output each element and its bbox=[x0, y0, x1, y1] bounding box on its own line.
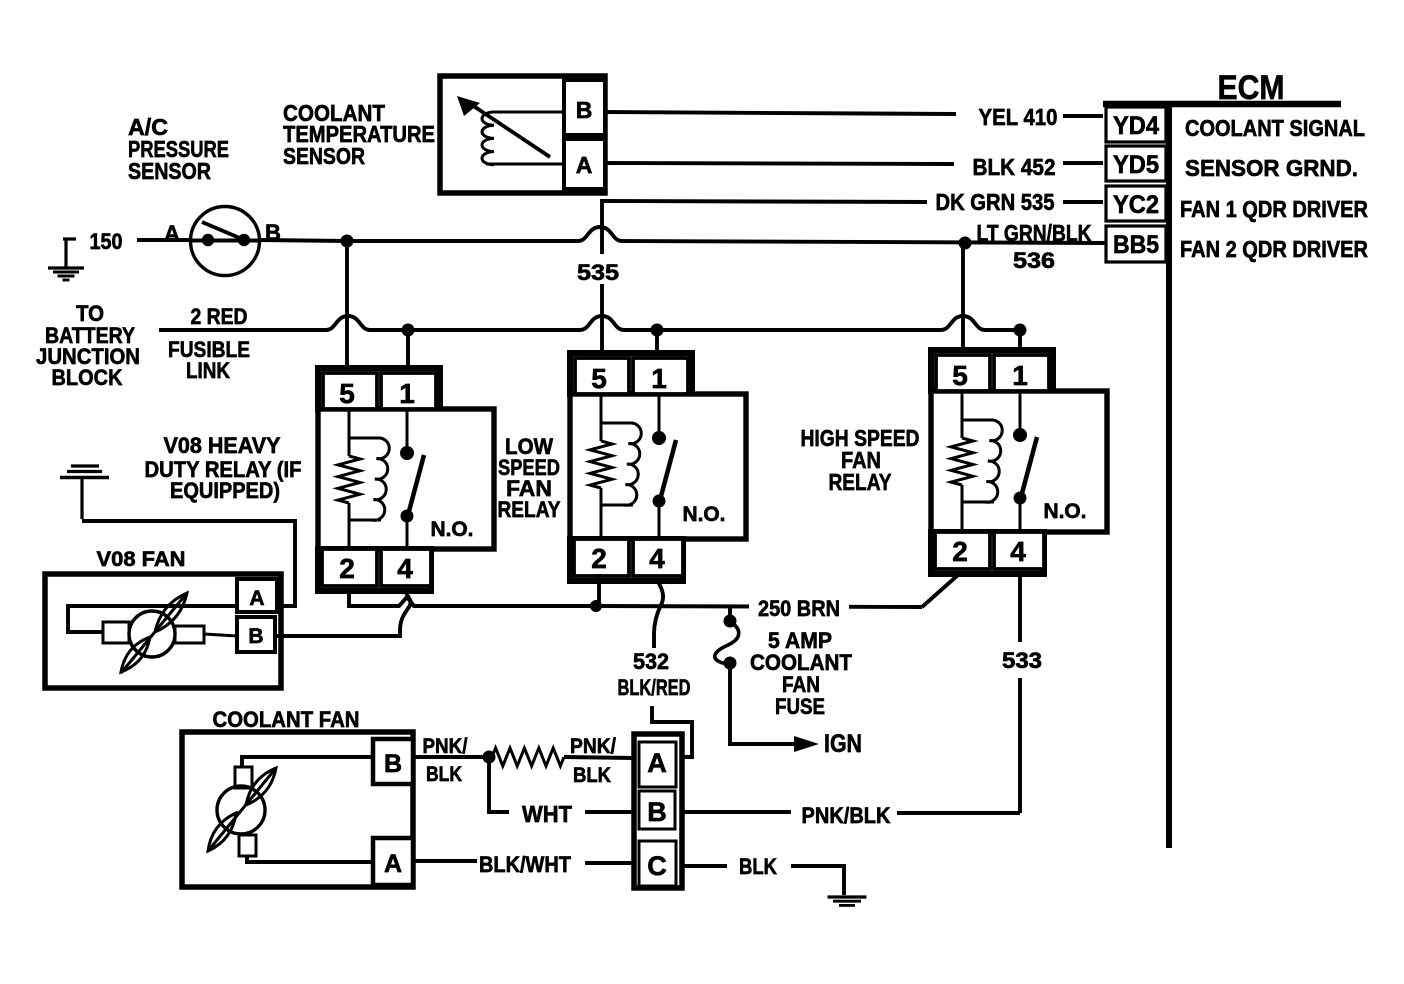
svg-text:PNK/: PNK/ bbox=[423, 735, 468, 758]
junction: V08 relay pin1 tap on 2 RED bbox=[402, 324, 415, 337]
svg-text:COOLANT FAN: COOLANT FAN bbox=[213, 707, 360, 732]
coolant temperature sensor pin box B bbox=[564, 80, 605, 135]
connector C100 outer shell bbox=[634, 734, 682, 888]
label: A/C PRESSURE SENSOR bbox=[128, 114, 229, 184]
junction: high speed relay pin5 tap on wire 536 bbox=[959, 237, 972, 250]
wire: 250 BRN tap to fuse bbox=[728, 607, 732, 618]
svg-text:A: A bbox=[576, 152, 593, 178]
svg-text:BLK: BLK bbox=[573, 764, 611, 787]
wire PNK/BLK stub at connector B bbox=[684, 810, 791, 814]
relay K1 (V08 heavy duty): outline and pin boxes bbox=[318, 368, 494, 591]
resistor R1 (fan dropping resistor) bbox=[492, 748, 564, 766]
ECM pin box YD5 bbox=[1106, 146, 1166, 181]
relay K2 (low speed fan) N.O. switch contacts bbox=[652, 394, 676, 539]
ECM top boundary line bbox=[1103, 101, 1341, 108]
connector C100 terminal B bbox=[639, 791, 675, 829]
svg-text:A: A bbox=[647, 748, 667, 778]
wire: ground to V08 fan terminal A bbox=[82, 521, 295, 606]
relay K3 (high speed fan): outline and pin boxes bbox=[931, 350, 1107, 574]
relay K1 (V08 heavy duty) coil winding bbox=[338, 409, 389, 549]
svg-text:RELAY: RELAY bbox=[829, 469, 892, 495]
junction: high speed relay pin1 tap on 2 RED bbox=[1014, 324, 1027, 337]
connector C100 terminal C bbox=[639, 841, 676, 886]
svg-text:A: A bbox=[384, 850, 402, 878]
wire 533 from high speed relay pin 4 bbox=[1018, 574, 1022, 813]
label: V08 HEAVY DUTY RELAY (IF EQUIPPED) bbox=[145, 433, 302, 503]
wire: splice down to WHT lead bbox=[489, 760, 509, 812]
relay K3 (high speed fan) coil winding bbox=[951, 391, 1002, 532]
svg-text:150: 150 bbox=[90, 229, 123, 254]
junction: 250 BRN at low speed relay pin 2 bbox=[590, 600, 602, 612]
label: 532 BLK/RED bbox=[618, 649, 691, 700]
svg-text:1: 1 bbox=[399, 378, 415, 409]
svg-text:SENSOR GRND.: SENSOR GRND. bbox=[1185, 155, 1358, 181]
svg-text:N.O.: N.O. bbox=[1044, 500, 1087, 523]
wire 250 BRN diagonal to high speed relay pin 2 bbox=[922, 575, 958, 607]
svg-text:V08 FAN: V08 FAN bbox=[97, 548, 186, 571]
coolant temperature sensor outline bbox=[440, 76, 605, 193]
IGN feed arrowhead bbox=[794, 736, 819, 752]
ground symbol G3 (coolant fan ground) bbox=[828, 895, 867, 898]
ECM left boundary line bbox=[1166, 104, 1172, 848]
svg-text:5: 5 bbox=[952, 360, 968, 391]
svg-text:SENSOR: SENSOR bbox=[128, 158, 211, 184]
svg-text:533: 533 bbox=[1002, 648, 1042, 673]
V08 fan enclosure bbox=[45, 574, 281, 688]
wire: 2 RED down to V08 relay pin 1 bbox=[406, 330, 410, 375]
svg-text:DK GRN 535: DK GRN 535 bbox=[936, 189, 1055, 215]
svg-text:250 BRN: 250 BRN bbox=[758, 596, 840, 621]
wire YEL 410 stub at YD4 bbox=[1063, 114, 1103, 118]
svg-text:2: 2 bbox=[952, 536, 968, 567]
wire BLK 452 (sensor A to YD5) bbox=[605, 163, 954, 164]
wire LT GRN/BLK 536 horizontal run with hop over wire 535 bbox=[258, 227, 1106, 243]
wire 150 segment to A/C pressure sensor bbox=[137, 238, 192, 242]
A/C pressure sensor switch S1 bbox=[191, 207, 260, 276]
wire: fuse to IGN bbox=[730, 667, 795, 744]
svg-text:4: 4 bbox=[649, 543, 665, 574]
svg-text:YD5: YD5 bbox=[1113, 151, 1159, 179]
svg-text:YC2: YC2 bbox=[1113, 191, 1159, 219]
relay K2 (low speed fan): outline and pin boxes bbox=[570, 353, 746, 581]
svg-text:BLK/WHT: BLK/WHT bbox=[479, 852, 572, 877]
wire: 2 RED down to low speed relay pin 1 bbox=[655, 330, 659, 360]
svg-text:PNK/BLK: PNK/BLK bbox=[802, 803, 891, 828]
svg-text:BLK: BLK bbox=[739, 854, 777, 879]
coolant fan blades bbox=[208, 768, 276, 851]
wire YEL 410 (sensor B to YD4) bbox=[605, 112, 956, 114]
wire: 536 tap down to V08 relay pin 5 bbox=[345, 241, 349, 375]
wire DK GRN 535 horizontal run bbox=[602, 201, 927, 202]
svg-text:YD4: YD4 bbox=[1113, 112, 1159, 140]
thermistor adjustment arrow bbox=[457, 96, 550, 157]
ECM pin box YC2 bbox=[1106, 186, 1166, 221]
label: 250 BRN bbox=[749, 596, 849, 618]
svg-text:B: B bbox=[576, 97, 593, 123]
relay K3 (high speed fan) N.O. switch contacts bbox=[1013, 391, 1037, 532]
fuse F1 (5 amp coolant fan fuse) bbox=[715, 615, 739, 670]
svg-text:B: B bbox=[248, 625, 263, 648]
svg-text:A: A bbox=[249, 587, 264, 610]
ECM pin box YD4 bbox=[1106, 107, 1166, 142]
svg-text:536: 536 bbox=[1013, 248, 1055, 273]
wire: 533 to PNK/BLK run to connector terminal B bbox=[897, 811, 1020, 815]
wire BLK/WHT stub at connector C bbox=[585, 861, 634, 865]
svg-text:LINK: LINK bbox=[186, 358, 230, 383]
label: 5 AMP COOLANT FAN FUSE bbox=[750, 628, 853, 719]
junction: V08 relay pin5 tap on wire 536 bbox=[341, 235, 354, 248]
label: PNK/ BLK (left) bbox=[423, 735, 468, 786]
svg-text:FUSE: FUSE bbox=[775, 694, 825, 719]
ground symbol G2 (V08 fan ground) bbox=[60, 466, 109, 519]
svg-text:YEL 410: YEL 410 bbox=[979, 104, 1058, 130]
wire 532 from low speed relay pin 4 (crosses 250 BRN) bbox=[654, 580, 663, 648]
wire 250 BRN run bbox=[596, 606, 922, 607]
V08 fan terminal box B bbox=[237, 617, 275, 652]
svg-text:IGN: IGN bbox=[824, 730, 862, 758]
ground symbol G1 (wire 150 ground) bbox=[48, 239, 84, 280]
svg-text:BLK 452: BLK 452 bbox=[973, 154, 1056, 180]
coolant fan terminal box A bbox=[373, 838, 413, 885]
svg-text:V08 HEAVY: V08 HEAVY bbox=[164, 433, 281, 458]
svg-text:RELAY: RELAY bbox=[498, 497, 561, 522]
label: COOLANT TEMPERATURE SENSOR bbox=[283, 100, 435, 169]
V08 fan blades bbox=[121, 593, 187, 673]
svg-text:BLOCK: BLOCK bbox=[52, 365, 123, 390]
V08 fan motor bbox=[68, 606, 237, 657]
label: FUSIBLE LINK bbox=[168, 337, 250, 383]
svg-text:WHT: WHT bbox=[522, 801, 572, 827]
wire: coolant fan B to splice bbox=[413, 755, 484, 759]
svg-text:5: 5 bbox=[339, 378, 355, 409]
wire: V08 relay pin 2 to 250 BRN net (hop over pin4 lead) bbox=[349, 591, 591, 606]
wire DK GRN 535 vertical run to low speed relay pin 5 bbox=[600, 199, 604, 360]
wire BLK to ground bbox=[791, 866, 844, 895]
wire: 536 tap down to high speed relay pin 5 bbox=[961, 243, 965, 357]
svg-text:BLK: BLK bbox=[426, 763, 462, 786]
wire: 2 RED down to high speed relay pin 1 bbox=[1018, 330, 1022, 357]
svg-text:5: 5 bbox=[591, 363, 607, 394]
svg-text:FAN 2 QDR DRIVER: FAN 2 QDR DRIVER bbox=[1180, 236, 1368, 262]
label: TO BATTERY JUNCTION BLOCK bbox=[36, 301, 140, 390]
svg-text:2 RED: 2 RED bbox=[191, 304, 248, 329]
junction splice on PNK/BLK bbox=[483, 751, 496, 764]
svg-text:FAN 1 QDR DRIVER: FAN 1 QDR DRIVER bbox=[1180, 196, 1368, 222]
svg-text:4: 4 bbox=[397, 553, 413, 584]
ECM pin box BB5 bbox=[1106, 226, 1166, 262]
svg-text:1: 1 bbox=[651, 363, 667, 394]
wire: coolant fan A to BLK/WHT bbox=[413, 859, 477, 863]
wire DK GRN 535 stub at YC2 bbox=[1063, 200, 1103, 204]
svg-text:2: 2 bbox=[339, 553, 355, 584]
svg-text:COOLANT SIGNAL: COOLANT SIGNAL bbox=[1185, 115, 1365, 141]
svg-text:C: C bbox=[647, 851, 667, 881]
svg-text:N.O.: N.O. bbox=[683, 503, 726, 526]
wire: resistor to connector terminal A bbox=[564, 757, 634, 758]
coolant temperature sensor pin box A bbox=[564, 139, 605, 189]
wire: V08 relay pin 4 to V08 fan terminal B bbox=[275, 591, 411, 636]
wire BLK from connector C bbox=[684, 864, 727, 868]
wire WHT stub at connector B bbox=[585, 810, 634, 814]
label: HIGH SPEED FAN RELAY bbox=[801, 425, 920, 495]
coolant fan terminal box B bbox=[373, 739, 413, 784]
svg-text:2: 2 bbox=[591, 543, 607, 574]
wire BLK 452 stub at YD5 bbox=[1063, 161, 1103, 165]
wire: low speed relay pin 2 down to 250 BRN junction bbox=[597, 574, 601, 606]
svg-text:BLK/RED: BLK/RED bbox=[618, 675, 691, 700]
svg-text:1: 1 bbox=[1012, 360, 1028, 391]
thermistor element (variable resistor) bbox=[482, 112, 564, 165]
wire 2 RED fusible link feed with hops over relay coil wires bbox=[159, 316, 1020, 330]
svg-text:SENSOR: SENSOR bbox=[283, 143, 365, 169]
svg-text:532: 532 bbox=[633, 649, 669, 674]
relay K2 (low speed fan) coil winding bbox=[590, 394, 641, 539]
svg-text:4: 4 bbox=[1010, 536, 1026, 567]
svg-text:B: B bbox=[647, 797, 667, 827]
svg-text:535: 535 bbox=[577, 260, 619, 285]
label: LOW SPEED FAN RELAY bbox=[498, 434, 561, 522]
relay K1 (V08 heavy duty) N.O. switch contacts bbox=[400, 409, 424, 549]
junction: low speed relay pin1 tap on 2 RED bbox=[651, 324, 664, 337]
svg-text:BB5: BB5 bbox=[1113, 231, 1159, 259]
svg-text:A: A bbox=[164, 221, 180, 246]
svg-text:PNK/: PNK/ bbox=[570, 735, 616, 758]
coolant fan motor bbox=[217, 757, 373, 862]
svg-text:N.O.: N.O. bbox=[431, 518, 474, 541]
svg-text:LT GRN/BLK: LT GRN/BLK bbox=[977, 220, 1092, 246]
coolant fan enclosure bbox=[182, 732, 413, 887]
V08 fan terminal box A bbox=[237, 579, 277, 612]
wire 532 to connector terminal A bbox=[652, 706, 692, 757]
connector C100 terminal A bbox=[639, 742, 676, 787]
svg-text:B: B bbox=[384, 750, 402, 778]
svg-text:EQUIPPED): EQUIPPED) bbox=[170, 478, 280, 503]
label: PNK/ BLK (right) bbox=[570, 735, 616, 787]
